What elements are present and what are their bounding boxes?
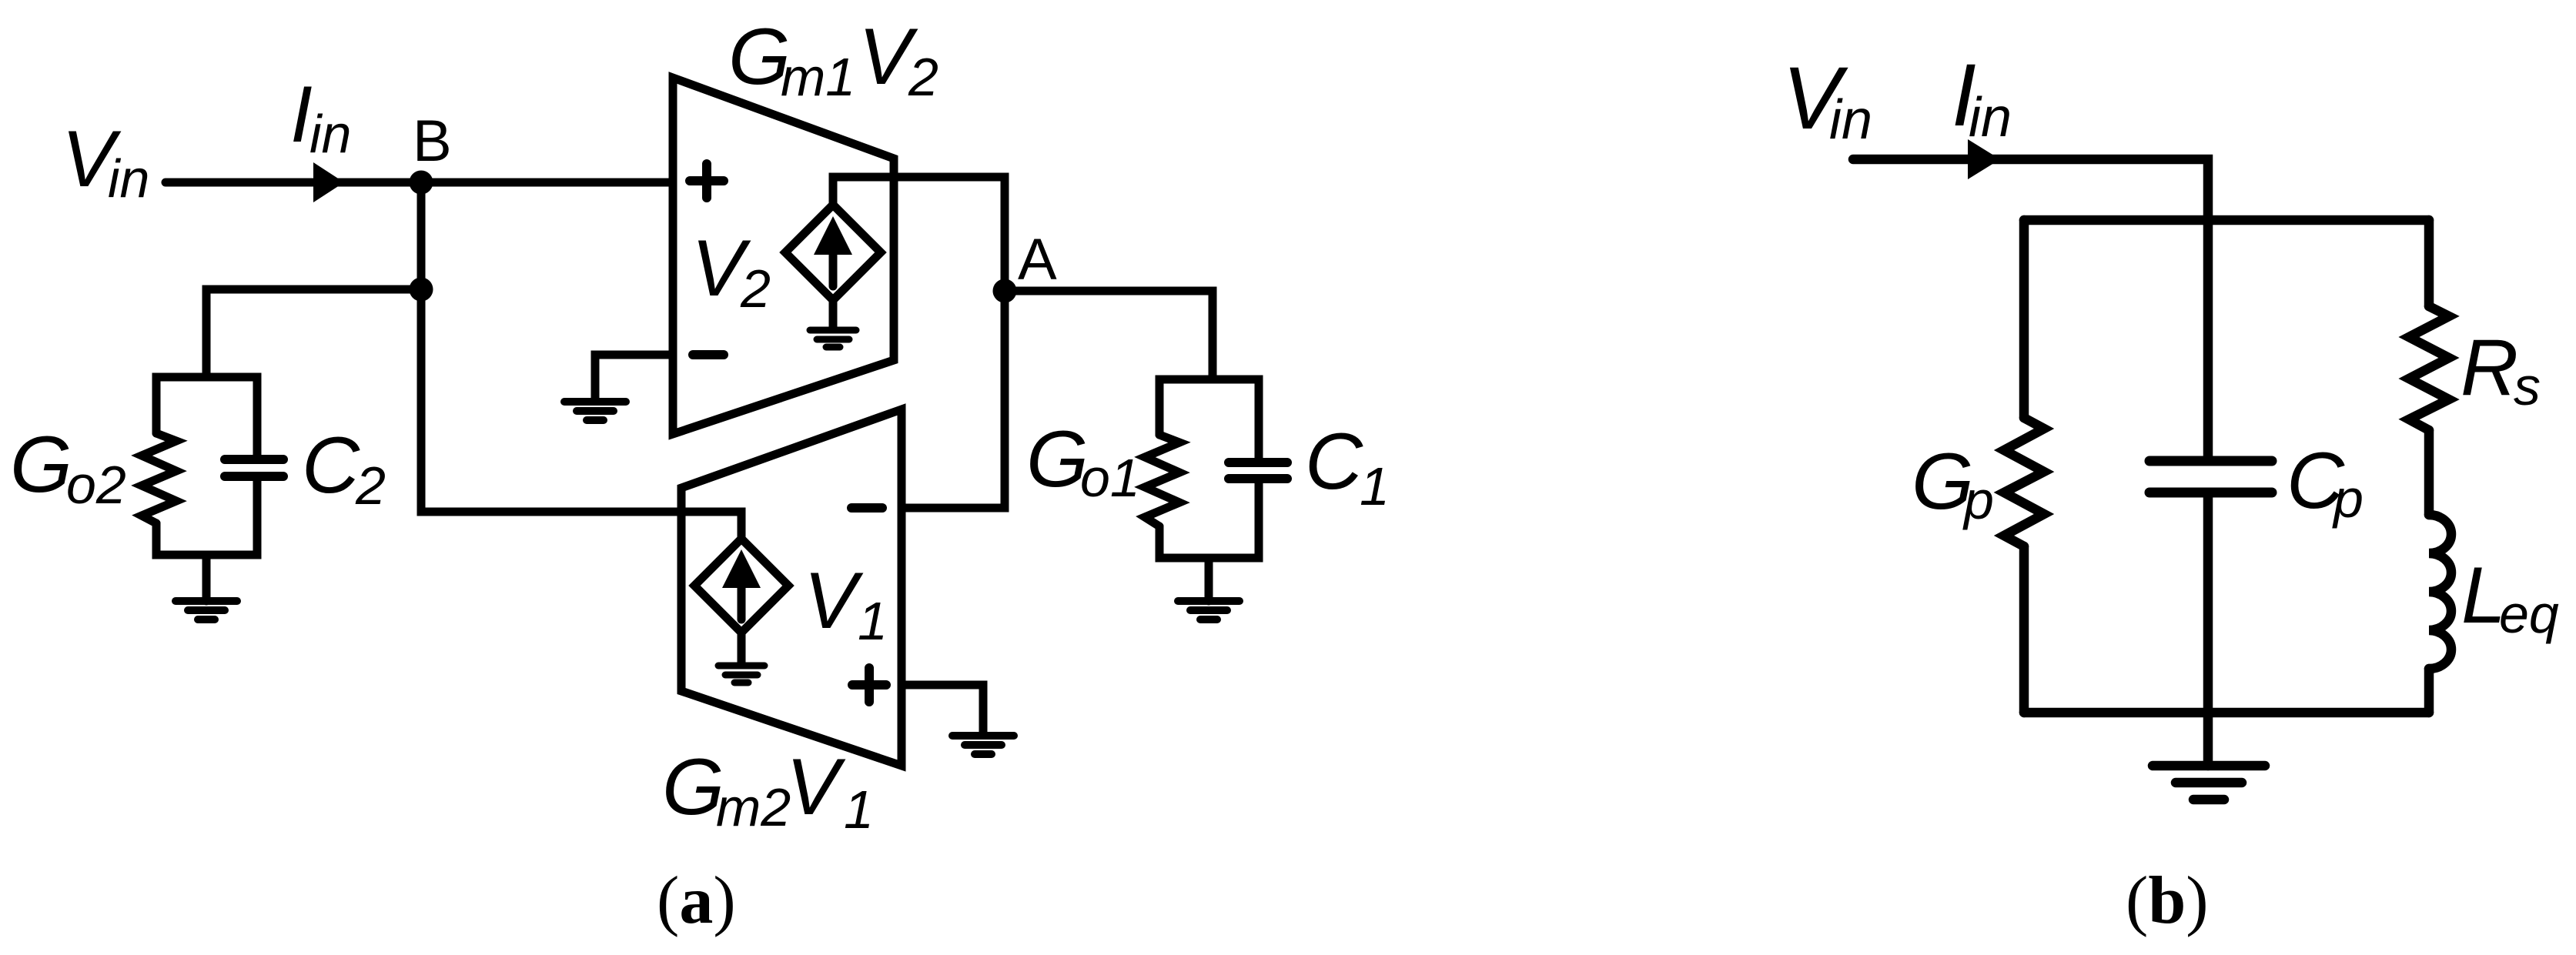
svg-text:eq: eq bbox=[2499, 584, 2559, 644]
ground at Gm2 plus bbox=[952, 736, 1014, 754]
wire from node B down and right to Gm2 diamond bbox=[421, 182, 741, 539]
svg-text:(b): (b) bbox=[2126, 863, 2209, 938]
right branch with Rs and Leq bbox=[2424, 220, 2434, 713]
svg-text:p: p bbox=[2332, 469, 2364, 529]
svg-text:R: R bbox=[2461, 323, 2518, 412]
capacitor C1 plates bbox=[1229, 462, 1287, 479]
resistor Gp zigzag bbox=[2004, 418, 2044, 546]
wire input Vin to Gm1 + bbox=[166, 179, 673, 187]
svg-text:A: A bbox=[1018, 227, 1057, 292]
svg-text:s: s bbox=[2514, 356, 2541, 416]
svg-text:in: in bbox=[309, 104, 351, 164]
svg-text:G: G bbox=[662, 743, 724, 832]
svg-text:1: 1 bbox=[844, 780, 874, 840]
wire Cp bottom through box to ground stem bbox=[2203, 497, 2213, 766]
wire Gm2 plus to ground bbox=[902, 685, 983, 733]
inductor Leq coils bbox=[2429, 515, 2451, 669]
wire Gm1 minus to ground bbox=[595, 355, 673, 398]
junction dot below B bbox=[410, 278, 433, 302]
resistor Go1 zigzag bbox=[1145, 435, 1179, 526]
minus input Gm1 bbox=[693, 350, 724, 359]
svg-text:1: 1 bbox=[1360, 456, 1390, 516]
ground under Go2 bbox=[202, 555, 211, 601]
svg-text:C: C bbox=[302, 421, 360, 510]
conductance Go1 box frame bbox=[1159, 379, 1259, 558]
dependent source diamond Gm1 bbox=[785, 205, 881, 300]
svg-text:o1: o1 bbox=[1080, 448, 1140, 508]
svg-text:G: G bbox=[1026, 415, 1089, 504]
svg-text:p: p bbox=[1962, 470, 1994, 530]
svg-text:C: C bbox=[1305, 417, 1363, 506]
op-amp Gm1 trapezoid bbox=[673, 78, 894, 434]
svg-text:2: 2 bbox=[355, 456, 386, 516]
dependent source diamond Gm2 bbox=[694, 539, 788, 633]
ground under Gm1 diamond bbox=[829, 300, 838, 327]
conductance Go2 box frame bbox=[156, 377, 257, 555]
wire junction to Go2/C2 bbox=[206, 289, 421, 377]
arrow inside Gm1 diamond bbox=[829, 245, 838, 286]
capacitor Cp plates bbox=[2149, 461, 2272, 493]
arrowhead Iin bbox=[313, 162, 344, 202]
wire input (b) down through Cp top bbox=[1853, 159, 2208, 456]
svg-text:in: in bbox=[1829, 89, 1872, 151]
svg-text:(a): (a) bbox=[657, 863, 736, 938]
svg-text:2: 2 bbox=[740, 259, 771, 319]
ground under Gm2 diamond bbox=[738, 633, 746, 663]
op-amp Gm2 trapezoid bbox=[681, 409, 902, 766]
svg-text:G: G bbox=[10, 420, 72, 509]
svg-text:B: B bbox=[413, 109, 452, 174]
box top bar (b) bbox=[2024, 215, 2429, 225]
svg-text:2: 2 bbox=[908, 47, 938, 107]
plus input Gm2 bbox=[852, 668, 886, 702]
wire node A to Go1/C1 bbox=[1005, 291, 1213, 379]
capacitor C2 plates bbox=[225, 459, 283, 476]
resistor Rs zigzag bbox=[2409, 306, 2449, 430]
svg-text:V: V bbox=[804, 556, 864, 646]
svg-text:o2: o2 bbox=[66, 455, 126, 515]
ground at Gm1 minus bbox=[564, 402, 626, 420]
left branch with resistor Gp bbox=[2019, 220, 2029, 713]
node A dot bbox=[993, 279, 1017, 303]
node B dot bbox=[410, 171, 433, 195]
svg-text:m2: m2 bbox=[716, 777, 791, 837]
svg-text:in: in bbox=[108, 149, 149, 209]
svg-text:in: in bbox=[1969, 87, 2012, 149]
minus input Gm2 bbox=[851, 503, 882, 513]
svg-text:V: V bbox=[786, 743, 846, 832]
ground under Go1 bbox=[1205, 558, 1213, 601]
box bottom bar (b) bbox=[2024, 708, 2429, 718]
arrowhead Iin (b) bbox=[1968, 139, 2000, 179]
plus input Gm1 bbox=[690, 164, 724, 198]
resistor Go2 zigzag bbox=[142, 433, 176, 523]
ground (b) bbox=[2153, 766, 2265, 800]
svg-text:m1: m1 bbox=[781, 47, 855, 107]
wire Gm1 diamond output to node A column bbox=[833, 177, 1005, 508]
svg-text:1: 1 bbox=[858, 591, 888, 651]
arrow inside Gm2 diamond bbox=[738, 578, 746, 619]
